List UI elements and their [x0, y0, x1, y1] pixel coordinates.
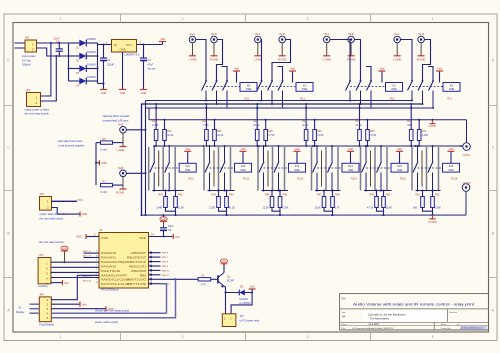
- svg-text:R-GND: R-GND: [347, 58, 356, 62]
- svg-text:1: 1: [60, 335, 62, 339]
- svg-text:1N5819: 1N5819: [87, 51, 96, 54]
- wire gnd stub K3c: [428, 67, 433, 81]
- rail ladder top L: [146, 107, 434, 109]
- audio jack IN-L: [254, 36, 261, 43]
- svg-text:RB3/CCP1: RB3/CCP1: [129, 264, 147, 268]
- pass wire block 1 a: [148, 147, 150, 191]
- svg-text:Vdd: Vdd: [241, 147, 246, 151]
- bus R select y103.5: [142, 104, 423, 215]
- wire R50 top stub: [383, 191, 385, 197]
- wire bridge to regulator: [98, 44, 112, 46]
- svg-text:RB0/INT: RB0/INT: [131, 251, 146, 255]
- wire JP5 pin1 up: [51, 275, 77, 299]
- wire R32 bottom stub: [418, 141, 420, 147]
- svg-text:1.30K: 1.30K: [282, 206, 289, 209]
- wire R29 top stub: [359, 104, 361, 130]
- svg-text:LM2940T-5.0: LM2940T-5.0: [125, 53, 140, 56]
- svg-text:IN-R: IN-R: [279, 32, 285, 36]
- wire R42 drop to bus: [175, 211, 177, 215]
- svg-text:RL16: RL16: [452, 178, 458, 181]
- svg-text:Drawn By:: Drawn By:: [441, 327, 451, 330]
- dashed actuator link K2: [350, 86, 386, 88]
- ground R-GND: [211, 55, 218, 57]
- relay contact K9-b: [216, 80, 218, 82]
- svg-text:GND: GND: [62, 248, 67, 250]
- ground L-GND direct: [120, 146, 127, 148]
- rail segment block 2: [205, 145, 259, 147]
- wire R24 top stub: [214, 120, 216, 130]
- wire R45 top stub: [271, 191, 273, 197]
- rail segment block 5: [359, 145, 416, 147]
- svg-text:R26: R26: [268, 130, 273, 133]
- capacitor C1 220uF: [103, 45, 105, 59]
- svg-text:Vdd: Vdd: [82, 304, 87, 307]
- resistor R23 7.32K: [205, 130, 209, 141]
- svg-text:jos@vaneijndhoven.net: jos@vaneijndhoven.net: [460, 327, 483, 330]
- wire R22 top stub: [164, 120, 166, 130]
- wire jack pin to ground: [350, 43, 352, 56]
- audio jack IN-B left: [120, 127, 127, 134]
- svg-text:3.74K: 3.74K: [268, 134, 275, 137]
- pass wire block 2 c: [230, 147, 232, 191]
- svg-text:R31: R31: [407, 120, 412, 123]
- wire R25 bottom stub: [256, 141, 258, 147]
- svg-text:JP3: JP3: [40, 192, 45, 196]
- svg-text:K16: K16: [449, 165, 454, 168]
- svg-text:IN-R: IN-R: [348, 32, 354, 36]
- dashed actuator link K16: [418, 167, 443, 169]
- svg-text:GND: GND: [141, 92, 147, 95]
- svg-text:RB2 8: RB2 8: [162, 262, 169, 264]
- svg-text:Vdd: Vdd: [185, 147, 190, 151]
- wire R27 bottom stub: [305, 141, 307, 147]
- svg-text:Optional direct coupled: Optional direct coupled: [103, 114, 130, 118]
- relay contact K16-b: [432, 146, 434, 162]
- svg-text:2: 2: [182, 17, 184, 21]
- resistor R44 41.2K: [225, 197, 229, 208]
- relay contact K1-a: [261, 80, 263, 82]
- wire bridge right rail: [97, 43, 99, 84]
- resistor R49 47.1K: [375, 197, 379, 208]
- pass wire block 6 b: [426, 147, 428, 191]
- relay contact K16-a: [417, 146, 419, 162]
- wire JP2 pin2 up to AC2: [41, 56, 57, 101]
- wire K11 coil to VDD: [187, 151, 189, 163]
- junction C2 top: [143, 44, 145, 46]
- bus bottom thick: [142, 214, 467, 216]
- svg-text:IN-L: IN-L: [395, 32, 401, 36]
- ground power 3: [140, 89, 147, 91]
- wire gnd stub K9c: [222, 67, 228, 81]
- wire R43 R44 U join: [219, 208, 227, 212]
- wire R41 top stub: [165, 191, 167, 197]
- wire JP4 pin2 to PIC: [51, 266, 99, 268]
- svg-text:R30: R30: [370, 130, 375, 133]
- svg-text:1N5819: 1N5819: [87, 63, 96, 66]
- svg-text:RA4/T0CKI: RA4/T0CKI: [101, 269, 121, 273]
- wire VDD to JP7: [231, 289, 252, 314]
- svg-text:15.6K: 15.6K: [386, 206, 393, 209]
- svg-text:VSS: VSS: [101, 236, 108, 240]
- diode D3 1N5819: [79, 65, 86, 72]
- svg-text:(Serial input from display boa: (Serial input from display board): [95, 309, 129, 312]
- dashed actuator link K9: [206, 86, 240, 88]
- wire R27 top stub: [305, 104, 307, 130]
- svg-text:RL12: RL12: [244, 178, 250, 181]
- svg-text:2: 2: [96, 264, 97, 266]
- rail segment lower block 5: [364, 190, 392, 192]
- svg-text:R47: R47: [317, 194, 322, 197]
- resistor R25 15.3K: [255, 130, 259, 141]
- wire left feed vertical: [145, 101, 147, 216]
- email link: [460, 326, 487, 329]
- wire jack pin to ground: [281, 43, 283, 56]
- ground R-GND: [418, 55, 425, 57]
- diode D5 1N4148: [239, 290, 245, 296]
- junction K3-a on bus: [411, 100, 413, 102]
- svg-text:K11: K11: [186, 165, 191, 168]
- pass wire block 1 d: [158, 151, 160, 187]
- resistor R29 34.8K: [358, 130, 362, 141]
- svg-text:47.1K: 47.1K: [367, 206, 374, 209]
- wire serial loop up: [161, 284, 167, 314]
- dashed actuator link K14: [317, 167, 342, 169]
- wire R49 top stub: [376, 191, 378, 197]
- wire R21 top stub: [155, 104, 157, 130]
- wire diode D4 leads: [69, 80, 80, 82]
- svg-text:R48: R48: [335, 194, 340, 197]
- wire JP2 pin1 up to AC1: [41, 43, 51, 96]
- resistor R5 0 ohm: [101, 141, 113, 144]
- wire JP1 pin1 to bridge: [37, 42, 76, 44]
- pass wire block 3 d: [267, 151, 269, 187]
- wire PIC RA0 label SEL2: [84, 252, 100, 254]
- title block frame: [340, 294, 489, 330]
- resistor R41 0.04K: [164, 197, 168, 208]
- svg-text:34K: 34K: [407, 124, 412, 127]
- ground power 2: [119, 89, 126, 91]
- wire jack8 to contact K3b: [423, 40, 431, 81]
- svg-text:JP2: JP2: [26, 88, 31, 92]
- svg-text:R23: R23: [202, 120, 207, 123]
- wire JP4 pin4 to PIC: [51, 277, 99, 279]
- relay contact K12-b: [224, 146, 226, 162]
- audio jack IN-L: [189, 36, 196, 43]
- junction K1-a on bus: [261, 100, 263, 102]
- svg-text:ONE: ONE: [448, 169, 454, 172]
- resistor R30 47.9K: [366, 130, 370, 141]
- wire R47 R48 U join: [324, 208, 333, 212]
- top margin zone ticks: [120, 14, 122, 23]
- svg-text:7.32K: 7.32K: [202, 124, 209, 127]
- svg-text:Vdd: Vdd: [175, 236, 180, 239]
- svg-text:1: 1: [60, 17, 62, 21]
- wire R23 top stub: [205, 104, 207, 130]
- connector JP7: [222, 314, 236, 327]
- diode D4 1N5819: [79, 78, 86, 85]
- wire diode D2 leads: [69, 55, 80, 57]
- pass wire block 6 c: [438, 147, 440, 191]
- left margin zone ticks: [4, 105, 13, 107]
- svg-text:0 ohm: 0 ohm: [101, 148, 108, 151]
- wire gnd stub K2c: [366, 67, 371, 81]
- wire serial input: [51, 312, 166, 314]
- svg-text:6.0 Vac: 6.0 Vac: [22, 58, 32, 62]
- svg-text:R32: R32: [422, 130, 427, 133]
- relay contact K14-b: [331, 146, 333, 162]
- svg-text:Auxiliary: Auxiliary: [38, 284, 49, 288]
- svg-text:GND: GND: [101, 92, 107, 95]
- svg-text:R-GND: R-GND: [278, 58, 287, 62]
- svg-text:the next relay boards: the next relay boards: [25, 112, 50, 116]
- title block bottom line: [340, 329, 489, 331]
- audio jack IN-R: [418, 36, 425, 43]
- pass wire block 3 b: [272, 147, 274, 191]
- wire IN-B right to ladder: [127, 172, 146, 174]
- sheet divider: [433, 322, 435, 330]
- svg-text:RA5/MCLR/VPP: RA5/MCLR/VPP: [101, 273, 127, 277]
- ground PIC vss: [85, 234, 87, 239]
- wire jack1 to contact K9a: [196, 40, 206, 81]
- svg-text:RA2/AN2/VREF: RA2/AN2/VREF: [101, 260, 127, 264]
- svg-text:RB1/RX/DT: RB1/RX/DT: [127, 256, 147, 260]
- relay coil K12: [235, 163, 252, 172]
- junction K2-b on bus: [360, 103, 362, 105]
- wire K9 coil to VDD: [236, 71, 238, 83]
- svg-text:Vdd: Vdd: [295, 147, 300, 151]
- voltage regulator U1 LM2940: [112, 40, 137, 53]
- title block file row line: [340, 325, 489, 327]
- None: [140, 57, 147, 59]
- wire R22 bottom stub: [164, 141, 166, 147]
- rail segment block 1: [155, 145, 204, 147]
- svg-text:OUT-R: OUT-R: [462, 181, 470, 185]
- svg-text:R-GND: R-GND: [116, 192, 124, 195]
- svg-text:47.9K: 47.9K: [370, 134, 377, 137]
- dashed actuator link K3: [412, 86, 443, 88]
- wire PIC RA1 label SEL1: [84, 257, 100, 259]
- svg-text:15.3K: 15.3K: [253, 124, 260, 127]
- relay contact K9-c: [226, 80, 228, 82]
- svg-text:R49: R49: [370, 194, 375, 197]
- title block date row line: [340, 321, 489, 323]
- resistor R28 15.6K: [313, 130, 317, 141]
- wire R50 drop to bus: [383, 211, 385, 215]
- wire RB6 to R1 and Q1 base: [161, 278, 199, 280]
- resistor R7 0 ohm: [101, 183, 113, 186]
- svg-text:R-GND: R-GND: [417, 58, 426, 62]
- wire R52 top stub: [432, 191, 434, 197]
- svg-text:1.09K: 1.09K: [422, 134, 429, 137]
- wire JP3 pin2 to GND: [52, 208, 80, 215]
- None: [160, 227, 167, 229]
- wire JP5 left stubs: [30, 303, 40, 305]
- wire R48 top stub: [332, 191, 334, 197]
- svg-text:4: 4: [432, 335, 434, 339]
- wire bridge neg to gnd: [98, 83, 104, 85]
- svg-text:ONE: ONE: [348, 169, 354, 172]
- wire jack pin to ground: [213, 43, 215, 56]
- relay contact K13-b: [278, 146, 280, 162]
- pass wire block 5 a: [360, 147, 362, 191]
- svg-text:1N5819: 1N5819: [87, 38, 96, 41]
- svg-text:L-GND: L-GND: [428, 125, 436, 128]
- svg-text:Vdd: Vdd: [290, 67, 295, 71]
- svg-text:22uF: 22uF: [168, 225, 174, 228]
- svg-text:RB4/PGM: RB4/PGM: [131, 269, 147, 273]
- relay contact K1-b: [271, 80, 273, 82]
- wire jack pin to ground: [192, 43, 194, 56]
- audio jack OUT-R: [462, 184, 470, 192]
- title block size row line: [340, 308, 489, 310]
- resistor R43 2.32K: [217, 197, 221, 208]
- wire PIC vdd pin: [149, 236, 173, 238]
- svg-text:K15: K15: [397, 165, 402, 168]
- wire K1 coil to VDD: [292, 71, 294, 83]
- svg-text:A4: A4: [342, 315, 346, 319]
- pass wire block 3 a: [257, 147, 259, 191]
- ground R-GND: [348, 55, 355, 57]
- wire R31 top stub: [410, 104, 412, 130]
- svg-text:The Netherlands: The Netherlands: [370, 316, 390, 320]
- svg-text:GND: GND: [76, 236, 82, 239]
- power VDD JP4 pin5: [51, 282, 63, 284]
- svg-text:RB2/TX/CK: RB2/TX/CK: [127, 260, 146, 264]
- svg-text:RB3 9: RB3 9: [162, 266, 169, 268]
- svg-text:Copyright by Jos van Eijndhove: Copyright by Jos van Eijndhoven,: [368, 313, 407, 317]
- svg-text:VDD: VDD: [139, 236, 146, 240]
- svg-text:to PC power relay: to PC power relay: [240, 319, 261, 322]
- wire jack7 to contact K3a: [401, 40, 413, 81]
- svg-text:47uF: 47uF: [148, 63, 154, 66]
- connector JP5 Prog Reader: [39, 297, 51, 322]
- wire JP4 pin3 to PIC: [51, 271, 99, 273]
- wire R23 bottom stub: [205, 141, 207, 147]
- svg-text:RA1/AN1: RA1/AN1: [101, 256, 116, 260]
- ground L-GND: [254, 55, 261, 57]
- pass wire block 2 d: [213, 151, 215, 187]
- relay contact K15-a: [365, 146, 367, 162]
- wire diode D1 leads: [69, 42, 80, 44]
- svg-text:IN-B: IN-B: [118, 123, 123, 127]
- svg-text:R29: R29: [356, 120, 361, 123]
- svg-text:ONE: ONE: [246, 88, 252, 91]
- wire R30 top stub: [367, 120, 369, 130]
- wire K3 coil to VDD: [439, 71, 441, 83]
- ground L-GND: [323, 55, 330, 57]
- wire Q1 emitter to JP7: [225, 293, 227, 314]
- wire JP1 pin2 jog to mid rail: [37, 48, 69, 56]
- relay contact K14-a: [316, 146, 318, 162]
- svg-text:Vdd: Vdd: [250, 285, 255, 289]
- wire JP4 pin1 to PIC: [51, 261, 99, 263]
- wire jack6 to contact K2b: [355, 40, 361, 81]
- wire jack pin to ground: [257, 43, 259, 56]
- relay contact K3-b: [422, 80, 424, 82]
- ground R-GND ladder: [432, 215, 434, 218]
- junction K2-a on bus: [349, 100, 351, 102]
- resistor R32 1.09K: [417, 130, 421, 141]
- wire MCLR to PIC: [77, 274, 99, 276]
- svg-text:L-GND: L-GND: [323, 58, 331, 62]
- svg-text:RL13: RL13: [298, 178, 304, 181]
- pass wire block 2 a: [203, 147, 205, 191]
- svg-text:Prog Reader: Prog Reader: [39, 322, 54, 326]
- ground R-GND: [279, 55, 286, 57]
- resistor R46 1.30K: [278, 197, 282, 208]
- junction C1 top: [103, 44, 105, 46]
- svg-text:Vdd: Vdd: [348, 147, 353, 151]
- wire R42 top stub: [175, 191, 177, 197]
- svg-text:R43: R43: [212, 194, 217, 197]
- wire bus to C5 ground: [163, 215, 165, 217]
- relay coil K11: [179, 163, 196, 172]
- dashed actuator link K15: [366, 167, 391, 169]
- svg-text:Vdd: Vdd: [449, 147, 454, 151]
- wire gnd stub K1c: [278, 67, 283, 81]
- junction left verticals: [141, 214, 143, 216]
- svg-text:IN-L: IN-L: [190, 32, 196, 36]
- wire R5 left to gnd tie: [96, 142, 101, 144]
- svg-text:L-GND: L-GND: [393, 58, 401, 62]
- ground L-GND ladder: [431, 120, 433, 124]
- svg-text:JP7: JP7: [240, 315, 245, 318]
- resistor R26 3.74K: [264, 130, 268, 141]
- svg-text:15.3K: 15.3K: [315, 206, 322, 209]
- wire jack pin to ground: [326, 43, 328, 56]
- pass wire block 4 b: [325, 147, 327, 191]
- connector JP4 Auxiliary: [38, 258, 51, 284]
- relay coil K3: [443, 83, 460, 92]
- svg-text:GND: GND: [222, 261, 227, 263]
- svg-text:optionally insert wires: optionally insert wires: [58, 139, 83, 143]
- svg-text:(for next relay boards): (for next relay boards): [39, 241, 64, 244]
- svg-text:B: B: [492, 232, 494, 236]
- wire power switch output: [51, 279, 175, 317]
- connector JP3: [40, 197, 52, 211]
- svg-text:IN-R: IN-R: [211, 32, 217, 36]
- dashed actuator link K13: [264, 167, 289, 169]
- svg-text:2.32K: 2.32K: [209, 206, 216, 209]
- svg-text:220uF: 220uF: [107, 63, 115, 66]
- svg-text:K13: K13: [295, 165, 300, 168]
- resistor R52 3.09K: [431, 197, 435, 208]
- pass wire block 2 b: [218, 147, 220, 191]
- pass wire block 4 d: [321, 151, 323, 187]
- junction contacts on lower rail K11: [153, 190, 155, 192]
- wire JP3 pin1 PCO: [52, 200, 78, 202]
- junction K9-c on bus: [226, 107, 228, 109]
- dashed actuator link K11: [154, 167, 179, 169]
- wire regulator out to VDD: [137, 44, 163, 46]
- svg-text:PIC16F628(sm): PIC16F628(sm): [101, 288, 119, 291]
- svg-text:low esr: low esr: [148, 68, 156, 71]
- svg-text:3: 3: [307, 17, 309, 21]
- wire IN-B left to ladder: [127, 129, 146, 131]
- wire R5 to jack: [113, 142, 124, 144]
- relay contact K1-c: [282, 80, 284, 82]
- svg-text:R-GND: R-GND: [210, 58, 219, 62]
- relay contact K11-b: [168, 146, 170, 162]
- svg-text:OUT: OUT: [126, 43, 132, 47]
- junction C9 bottom: [58, 55, 60, 57]
- svg-text:R44: R44: [229, 194, 234, 197]
- svg-text:R21: R21: [152, 120, 157, 123]
- svg-text:1N5819: 1N5819: [87, 76, 96, 79]
- wire R46 top stub: [279, 191, 281, 197]
- wire R46 drop to bus: [279, 211, 281, 215]
- resistor R21 0.30K: [154, 130, 158, 141]
